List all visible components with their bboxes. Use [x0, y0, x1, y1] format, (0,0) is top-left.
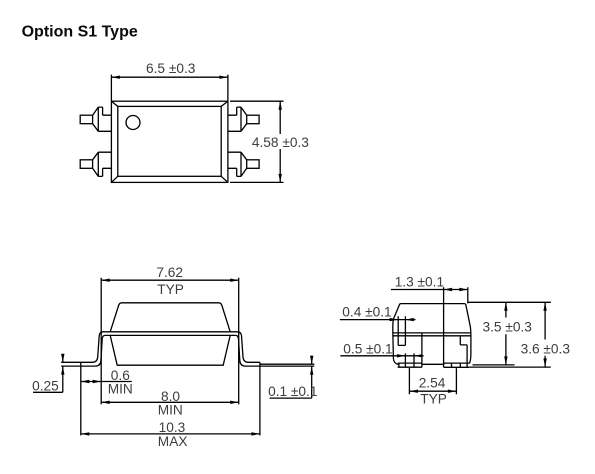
svg-text:4.58 ±0.3: 4.58 ±0.3: [252, 135, 309, 150]
svg-text:MIN: MIN: [108, 381, 133, 396]
top view corner bevels: [111, 101, 227, 182]
pin 1 marker circle: [126, 116, 140, 130]
dimension 0.5 +/-0.1 lead: [340, 342, 423, 358]
pin top-right: [228, 107, 259, 131]
svg-text:3.6 ±0.3: 3.6 ±0.3: [521, 341, 571, 356]
dimension 0.4 +/-0.1 step: [340, 305, 416, 322]
dimension 4.58 +/-0.3 top view height: [230, 101, 309, 182]
dimension 0.25 lead thickness: [32, 354, 64, 394]
pin top-left: [80, 107, 111, 131]
svg-text:TYP: TYP: [420, 392, 447, 407]
dimension 10.3 MAX: [81, 420, 260, 449]
pin bottom-left: [80, 152, 111, 176]
side view body: [103, 303, 238, 365]
svg-text:TYP: TYP: [157, 282, 184, 297]
dimension 7.62 TYP: [101, 265, 239, 404]
top view package body outer: [111, 101, 227, 182]
svg-text:MIN: MIN: [158, 402, 183, 417]
end view left lead: [398, 316, 422, 367]
dimension 6.5 +/-0.3 top view width: [111, 61, 227, 100]
dimension 3.6 +/-0.3 overall height: [521, 302, 571, 367]
svg-text:0.25: 0.25: [32, 378, 59, 393]
seating plane extension: [469, 366, 551, 368]
dimension 8.0 MIN: [101, 389, 239, 417]
svg-text:0.4 ±0.1: 0.4 ±0.1: [342, 305, 391, 320]
dimension 1.3 +/-0.1 lead width: [391, 275, 468, 333]
svg-text:1.3 ±0.1: 1.3 ±0.1: [395, 275, 444, 290]
svg-text:6.5 ±0.3: 6.5 ±0.3: [146, 61, 196, 76]
svg-text:0.1 ±0.1: 0.1 ±0.1: [268, 384, 317, 399]
end view body: [393, 304, 471, 365]
svg-text:3.5 ±0.3: 3.5 ±0.3: [483, 319, 533, 334]
svg-text:MAX: MAX: [158, 434, 188, 449]
svg-text:7.62: 7.62: [156, 265, 183, 280]
side view right lead: [236, 332, 314, 436]
svg-text:10.3: 10.3: [159, 420, 186, 435]
dimension 2.54 TYP pitch: [409, 368, 456, 407]
svg-text:2.54: 2.54: [419, 375, 446, 390]
dimension 3.5 +/-0.3 body height: [473, 302, 533, 365]
top view package body inner: [118, 106, 221, 176]
dimension 0.6 MIN: [81, 368, 133, 396]
top extension line: [468, 301, 551, 303]
pin bottom-right: [228, 152, 259, 176]
side view left lead: [61, 332, 105, 436]
svg-text:0.5 ±0.1: 0.5 ±0.1: [343, 342, 392, 357]
dimension 0.1 +/-0.1 standoff: [268, 356, 317, 399]
end view right lead: [444, 333, 470, 367]
svg-text:Option S1 Type: Option S1 Type: [22, 24, 138, 41]
